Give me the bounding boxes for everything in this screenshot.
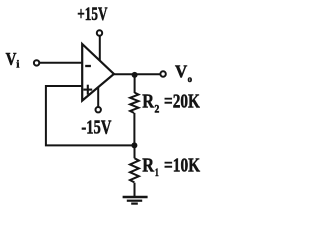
node R2/R1 junction — [131, 142, 137, 148]
svg-text:=20K: =20K — [164, 91, 200, 113]
svg-text:R: R — [142, 91, 154, 113]
op-amp minus sign — [85, 65, 91, 67]
terminal +15V — [97, 30, 102, 35]
node output junction — [132, 72, 138, 78]
terminal -15V — [96, 107, 101, 112]
svg-text:i: i — [16, 59, 19, 70]
wire output — [114, 73, 160, 75]
op-amp U1 — [82, 44, 114, 101]
svg-text:V: V — [6, 49, 17, 69]
wire node to R1 — [134, 145, 136, 158]
label Vo — [175, 62, 192, 86]
label R2 = 20K — [142, 91, 200, 116]
svg-text:1: 1 — [155, 167, 159, 179]
wire R2 to node — [133, 113, 135, 145]
svg-text:+15V: +15V — [77, 4, 107, 25]
wire -15V supply — [97, 87, 99, 107]
svg-text:=10K: =10K — [164, 154, 200, 176]
svg-text:2: 2 — [155, 103, 160, 115]
svg-text:-15V: -15V — [81, 117, 111, 139]
wire R1 to ground — [134, 183, 136, 197]
ground — [123, 197, 148, 204]
resistor R2 — [130, 93, 138, 113]
wire +15V supply — [99, 36, 101, 61]
wire output node to R2 — [134, 75, 136, 93]
wire feedback loop — [46, 86, 134, 145]
svg-text:V: V — [175, 62, 188, 82]
op-amp plus sign — [83, 85, 92, 95]
label R1 = 10K — [142, 154, 200, 179]
label Vi — [6, 49, 20, 71]
terminal Vo — [160, 71, 165, 76]
terminal Vi — [34, 60, 39, 65]
resistor R1 — [130, 158, 139, 182]
svg-text:o: o — [188, 75, 193, 85]
wire Vi to inverting input — [40, 62, 82, 64]
svg-text:R: R — [142, 154, 154, 176]
